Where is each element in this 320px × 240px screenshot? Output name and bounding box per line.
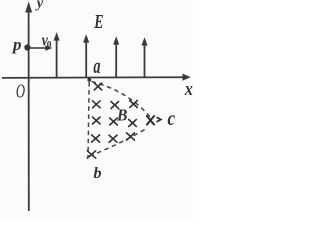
cross row3 left: [93, 117, 101, 124]
small arrow at c: [157, 117, 161, 122]
svg-text:b: b: [94, 165, 102, 182]
x-axis: [2, 74, 191, 81]
cross at c vertex: [147, 116, 154, 125]
svg-text:E: E: [93, 11, 103, 33]
cross row1: [94, 83, 102, 90]
cross row4 mid: [109, 135, 117, 142]
E field arrow 2: [83, 34, 89, 77]
svg-text:c: c: [168, 108, 176, 131]
y-axis: [25, 2, 32, 212]
cross row3 mid: [110, 118, 118, 125]
point p dot: [24, 44, 30, 50]
svg-text:x: x: [184, 78, 193, 100]
E field arrow 1: [54, 32, 60, 77]
svg-text:O: O: [16, 79, 25, 102]
cross row2 mid: [111, 102, 119, 109]
dashed side b-c: [90, 129, 147, 157]
svg-text:y: y: [35, 0, 44, 12]
dashed side a-b: [88, 82, 89, 158]
svg-text:0: 0: [47, 41, 52, 51]
svg-text:p: p: [11, 35, 22, 54]
cross row4 left: [92, 135, 100, 142]
cross row4 right: [127, 133, 135, 140]
svg-text:a: a: [93, 54, 100, 79]
velocity v0 arrow: [30, 45, 52, 50]
cross row3 right: [129, 120, 137, 127]
cross row2 right: [130, 101, 138, 108]
cross row2 left: [93, 101, 101, 108]
point a dot: [87, 78, 91, 82]
dashed side a-c: [92, 82, 151, 118]
E field arrow 4: [141, 37, 147, 77]
E field arrow 3: [113, 36, 119, 77]
cross at b vertex: [87, 151, 95, 158]
